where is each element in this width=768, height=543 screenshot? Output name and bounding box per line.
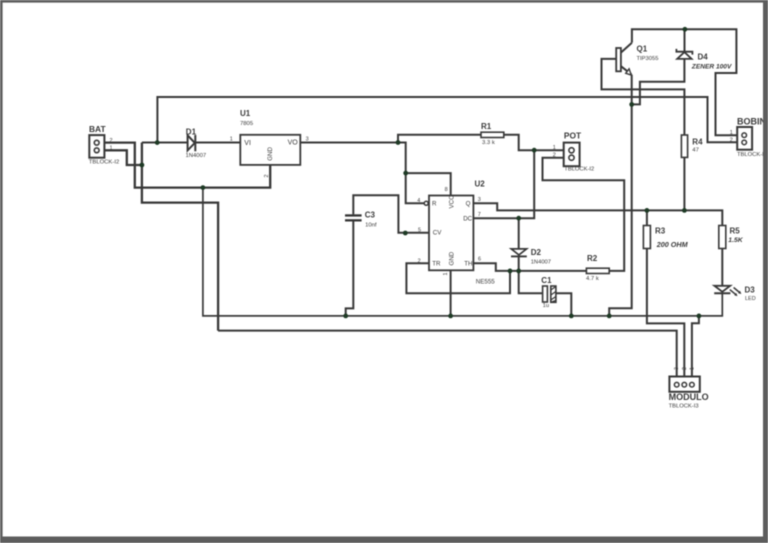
connector BOBINA <box>737 127 752 150</box>
node dot MODULO rail <box>697 314 702 319</box>
svg-text:2: 2 <box>730 138 733 144</box>
svg-text:8: 8 <box>445 187 448 193</box>
svg-text:GND: GND <box>449 251 456 265</box>
node dot DC D2 <box>516 216 521 221</box>
wire 5V to U2 R pin 4 <box>406 173 425 203</box>
wire C3 top to U2 CV pin 5 <box>353 195 429 233</box>
timer U2 <box>424 196 473 271</box>
svg-text:Q1: Q1 <box>637 44 648 53</box>
wire BAT pin1 stub <box>99 150 142 165</box>
wire VO to R1 left <box>398 135 481 143</box>
svg-text:NE555: NE555 <box>476 279 495 286</box>
wire POT node down to U2 DC pin 7 <box>473 150 534 218</box>
svg-text:TIP3055: TIP3055 <box>637 56 659 62</box>
svg-text:C1: C1 <box>541 276 552 285</box>
wire R3 top <box>646 210 648 225</box>
svg-text:1: 1 <box>110 146 113 152</box>
wire U2 TR pin 2 loop to TH rail <box>406 263 510 293</box>
svg-text:D3: D3 <box>745 286 756 295</box>
capacitor C3 <box>345 214 362 221</box>
node dot collector D4 <box>683 27 688 32</box>
diode D1 <box>188 135 196 151</box>
resistor R4 <box>681 135 687 157</box>
svg-text:ZENER 100V: ZENER 100V <box>691 64 732 71</box>
connector POT <box>564 143 580 167</box>
svg-text:R5: R5 <box>730 226 741 235</box>
wire R2 right to POT pin2 <box>543 158 625 271</box>
svg-text:TBLOCK-I2: TBLOCK-I2 <box>89 159 119 165</box>
svg-text:VCC: VCC <box>449 195 456 209</box>
node dot TH D2 <box>516 269 521 274</box>
node dot emitter rail <box>607 314 612 319</box>
svg-text:TR: TR <box>432 260 441 267</box>
svg-text:DC: DC <box>463 215 472 222</box>
wire DC node to D2 anode <box>518 218 520 249</box>
svg-text:2: 2 <box>553 152 556 158</box>
node dot BAT+ bus <box>155 140 160 145</box>
zener diode D4 <box>676 49 692 59</box>
wire U2 TH pin 6 to R2 left <box>473 263 586 271</box>
wire Q1 collector top rail to BOBIN pin1 <box>632 29 742 135</box>
svg-text:2: 2 <box>264 174 270 177</box>
wire R3 bottom to MODULO pin2 <box>647 249 684 383</box>
svg-text:10nf: 10nf <box>365 223 377 229</box>
node dot R3 top <box>645 208 650 213</box>
svg-text:1: 1 <box>730 130 733 136</box>
svg-text:4: 4 <box>417 198 420 204</box>
svg-text:47: 47 <box>692 148 699 154</box>
svg-text:1: 1 <box>689 367 695 370</box>
svg-text:6: 6 <box>478 256 481 262</box>
wire BAT pin2 ground run to U1 GND <box>99 143 270 188</box>
svg-text:BAT: BAT <box>89 124 106 134</box>
svg-text:U2: U2 <box>475 180 486 189</box>
svg-text:3: 3 <box>478 197 481 203</box>
svg-text:VI: VI <box>244 140 251 147</box>
svg-text:R1: R1 <box>481 122 492 131</box>
wire U2 GND pin 1 drop <box>450 270 452 316</box>
node dot C3 rail <box>343 314 348 319</box>
wire 5V to U2 VCC pin 8 <box>406 173 451 195</box>
svg-text:GND: GND <box>267 147 274 161</box>
node dot TH TR <box>508 269 513 274</box>
node dot C1 rail <box>569 314 574 319</box>
resistor R1 <box>481 132 504 137</box>
svg-text:5: 5 <box>418 228 421 234</box>
svg-text:3: 3 <box>674 367 680 370</box>
resistor R5 <box>719 226 726 249</box>
svg-text:R3: R3 <box>655 226 666 235</box>
wire R4 bottom <box>683 157 685 210</box>
svg-text:1: 1 <box>230 137 233 143</box>
svg-text:POT: POT <box>564 131 582 141</box>
wire ground rail 1 <box>203 188 722 316</box>
wire C3 bottom to ground rail <box>346 221 354 316</box>
svg-text:D4: D4 <box>698 53 709 62</box>
svg-text:3: 3 <box>306 137 309 143</box>
svg-text:R: R <box>432 201 437 208</box>
svg-text:LED: LED <box>745 296 756 302</box>
svg-text:CV: CV <box>433 230 442 237</box>
wire U2 Q pin 3 output rail <box>473 203 722 225</box>
wire D1 anode feed <box>142 142 188 144</box>
svg-text:TH: TH <box>464 260 472 267</box>
svg-text:1: 1 <box>553 145 556 151</box>
wire D2 cathode down to C1 left <box>519 257 543 294</box>
svg-text:1u: 1u <box>543 303 549 309</box>
wire C1 right to ground rail <box>556 293 571 316</box>
svg-text:7805: 7805 <box>240 121 254 127</box>
wire ground rail to MODULO pin1 <box>692 316 699 382</box>
svg-text:3.3 k: 3.3 k <box>482 140 495 146</box>
wire rail 2 to MODULO pin3 <box>218 331 677 383</box>
svg-text:2: 2 <box>418 258 421 264</box>
connector MODULO <box>669 377 699 392</box>
wire +BAT top bus to BOBIN pin2 <box>157 97 741 143</box>
wire D4 anode to emitter <box>632 59 685 105</box>
wire Q1 base to R4 top <box>602 59 685 135</box>
svg-text:D2: D2 <box>531 248 542 257</box>
svg-text:1N4007: 1N4007 <box>186 153 207 159</box>
wire +BAT vertical to MODULO rail <box>142 143 218 331</box>
svg-text:D1: D1 <box>186 127 197 136</box>
node dot VO R1 <box>396 140 401 145</box>
transistor Q1 <box>616 43 632 75</box>
resistor R3 <box>643 226 650 249</box>
svg-text:MODULO: MODULO <box>669 392 709 402</box>
wire R5 bottom to D3 <box>721 249 723 286</box>
wire D1 cathode to U1 VI <box>195 142 240 144</box>
regulator U1 <box>240 135 300 165</box>
node dot BAT pin1 <box>140 163 145 168</box>
node dot 5V branch <box>403 171 408 176</box>
wire R1 right to POT pin1 <box>504 135 569 151</box>
node dot ground U1 <box>201 185 206 190</box>
capacitor C1 <box>543 286 556 302</box>
node dot U2 GND rail <box>448 314 453 319</box>
svg-text:R4: R4 <box>692 138 703 147</box>
svg-text:TBLOCK-I2: TBLOCK-I2 <box>737 152 767 158</box>
svg-text:TBLOCK-I2: TBLOCK-I2 <box>564 166 594 172</box>
svg-text:U1: U1 <box>240 109 251 118</box>
diode D2 <box>511 249 527 257</box>
connector BAT <box>89 135 104 158</box>
svg-text:2: 2 <box>110 138 113 144</box>
svg-text:7: 7 <box>478 212 481 218</box>
wire U1 VO output node A <box>300 143 405 174</box>
svg-text:4.7 k: 4.7 k <box>586 276 599 282</box>
svg-text:2: 2 <box>682 367 688 370</box>
LED D3 <box>714 286 741 296</box>
svg-text:C3: C3 <box>365 210 376 219</box>
svg-text:R2: R2 <box>587 254 598 263</box>
node dot emitter D4 <box>629 102 634 107</box>
resistor R2 <box>586 268 609 273</box>
svg-text:1.5K: 1.5K <box>728 237 743 244</box>
node dot R4 bottom <box>682 208 687 213</box>
node dot CV wire <box>403 231 408 236</box>
svg-text:1: 1 <box>443 272 449 275</box>
svg-text:1N4007: 1N4007 <box>531 259 551 265</box>
svg-text:Q: Q <box>466 201 471 208</box>
wire Q1 emitter down to ground rail <box>609 75 632 316</box>
wire D4 cathode <box>684 29 686 51</box>
svg-text:VO: VO <box>288 140 299 147</box>
node dot POT R1 DC <box>532 148 537 153</box>
svg-text:TBLOCK-I3: TBLOCK-I3 <box>669 404 699 410</box>
svg-text:200 OHM: 200 OHM <box>656 240 689 249</box>
